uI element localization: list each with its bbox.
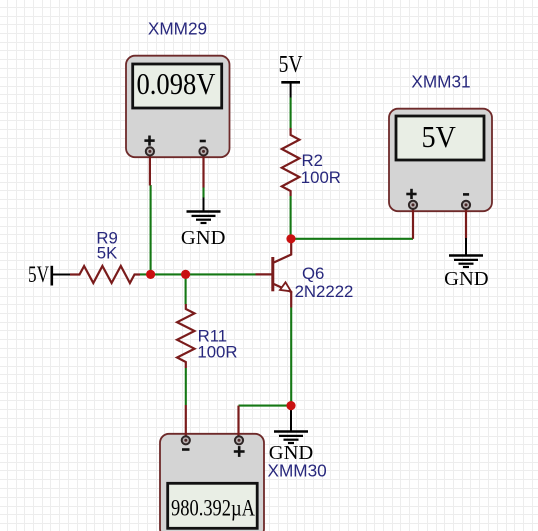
pin XMM31 minus (462, 201, 470, 209)
svg-text:Q6: Q6 (302, 264, 324, 283)
label R9 5K (96, 229, 117, 263)
pin XMM30 plus (235, 436, 243, 444)
resistor R2 (282, 128, 300, 196)
label Q6 2N2222 (295, 264, 354, 301)
wire: XMM31 plus pin stub (412, 207, 414, 239)
ground G1 under XMM29 minus (181, 198, 226, 250)
svg-text:GND: GND (269, 442, 314, 464)
wire: XMM31 minus pin stub (465, 207, 467, 239)
svg-text:100R: 100R (301, 168, 341, 187)
wire: XMM30 plus pin stub (237, 406, 239, 439)
ground G3 at emitter node (269, 406, 314, 464)
node emitter junction (286, 401, 295, 410)
node A junction (146, 270, 155, 279)
power connector VCC2 5V left (28, 262, 52, 287)
label XMM29 (148, 19, 207, 39)
wire: XMM29 plus pin stub (149, 153, 151, 186)
wire: XMM29 minus pin stub (202, 153, 204, 188)
pin XMM30 minus (182, 436, 190, 444)
svg-text:100R: 100R (197, 342, 237, 361)
svg-text:980.392µA: 980.392µA (171, 496, 255, 521)
svg-text:5K: 5K (97, 244, 118, 263)
svg-text:0.098V: 0.098V (137, 66, 217, 101)
label XMM31 (411, 72, 470, 92)
label XMM30 (268, 461, 327, 481)
pin XMM31 plus (409, 201, 417, 209)
resistor R11 (177, 304, 194, 368)
wire: 5V top connector pin (290, 82, 292, 128)
pin XMM29 minus (199, 147, 207, 155)
svg-text:5V: 5V (421, 119, 456, 154)
wire: XMM29 minus to ground G1 (202, 187, 204, 198)
wire: R2 bottom to collector node (290, 196, 292, 239)
label R2 100R (301, 151, 341, 187)
multimeter XMM30 (160, 434, 264, 531)
svg-text:GND: GND (444, 268, 489, 290)
wire: collector node to XMM31 plus (291, 238, 413, 240)
ground G2 under XMM31 minus (444, 238, 489, 290)
wire: emitter down to emitter node (290, 308, 292, 406)
wire: XMM30 minus pin stub (185, 405, 187, 439)
svg-text:5V: 5V (279, 52, 304, 78)
multimeter XMM31 (389, 109, 492, 212)
svg-text:XMM29: XMM29 (148, 19, 207, 39)
pin XMM29 plus (146, 147, 154, 155)
power connector VCC1 5V top (279, 52, 304, 82)
wire: horizontal base net through node A and node B (140, 273, 256, 275)
node collector junction (286, 234, 295, 243)
svg-text:XMM31: XMM31 (411, 72, 470, 92)
label R11 100R (197, 327, 237, 362)
wire: R11 bottom toward XMM30 minus (185, 368, 187, 405)
svg-text:2N2222: 2N2222 (295, 282, 354, 301)
svg-text:GND: GND (181, 227, 226, 249)
wire: 5V left connector pin (52, 274, 70, 276)
wire: XMM30 plus corner to emitter node (239, 405, 292, 407)
resistor R9 (70, 266, 140, 283)
multimeter XMM29 (126, 56, 230, 158)
wire: node B down to R11 top (185, 274, 187, 304)
transistor Q6 (256, 241, 292, 308)
wire: XMM29 plus terminal down to node A (150, 185, 152, 274)
svg-text:5V: 5V (28, 262, 49, 287)
node B junction (181, 270, 190, 279)
